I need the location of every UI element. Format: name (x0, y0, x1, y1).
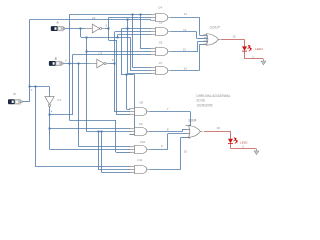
wire switch A output (65, 28, 85, 30)
svg-text:C7: C7 (159, 61, 163, 65)
junction net2 at riser (69, 63, 71, 65)
wire net3 C left vertical (29, 20, 31, 102)
switch A (51, 26, 65, 31)
junction net2 rail c (140, 14, 142, 16)
junction net3 at C drop (35, 86, 37, 88)
and gate C10 (129, 145, 149, 153)
wire net5 A-bar rail to C4 in2 (109, 17, 151, 19)
wire net6 drop (114, 63, 116, 112)
svg-text:C10: C10 (140, 140, 146, 144)
wire net2 B drop to C7 in1 (132, 15, 134, 68)
pin dot cout in3 (206, 41, 208, 43)
wire net12 to or in2 (196, 38, 205, 40)
wire net11 h (170, 17, 199, 19)
wire net4 to C6 in3 (73, 54, 151, 56)
wire net5 to C8 in3 (117, 114, 130, 116)
svg-text:C3: C3 (99, 52, 103, 56)
junction net3 at C5 feed (127, 28, 129, 30)
wire net2 B drop to C6 in1 (140, 15, 142, 49)
pin dot sum in3 (189, 133, 191, 135)
junction net2 rail b (132, 14, 134, 16)
led LED2 (228, 138, 237, 144)
wire net2 to C10 in1 (78, 146, 130, 148)
junction net1 b (86, 37, 88, 39)
wire net16 sum to led2 (204, 131, 231, 133)
wire switch B output (63, 63, 89, 65)
wire net12 h (170, 31, 196, 33)
svg-text:12: 12 (183, 28, 187, 32)
wire net3 to C5 in1 (122, 28, 152, 30)
wire net3 under C7 (122, 74, 135, 76)
wire C1 output (49, 107, 51, 149)
wire net3 C bottom to C11 in1 (36, 166, 131, 168)
wire net3 to C9 in3 (130, 134, 135, 136)
and gate C9 (129, 127, 149, 135)
wire net2 drop to C10 (78, 63, 80, 146)
pin dot cout in2 (206, 38, 208, 40)
wire net1 to C11 in2 (98, 169, 130, 171)
switch C (8, 99, 22, 104)
svg-text:C5: C5 (159, 20, 163, 24)
wire net3 to C8 in1 (127, 109, 131, 111)
or gate COUT (204, 34, 221, 46)
junction net4 b (49, 128, 51, 130)
svg-text:C9: C9 (139, 122, 143, 126)
wire net2 B horizontal low (69, 120, 116, 122)
wire net3 to C7 in3 (128, 73, 152, 75)
wire net3 drop to C8 (126, 75, 128, 109)
wire net7 h (149, 111, 190, 113)
wire net3 C branch to C1 (29, 86, 49, 88)
wire net14 v (199, 44, 201, 70)
wire net7 v to sum in1 (190, 112, 192, 126)
wire led2 to ground (231, 148, 257, 150)
wire net1 drop to C11 in3 (101, 132, 103, 173)
wire net2 B to C6 in1 (141, 48, 151, 50)
inverter C1 (45, 94, 54, 109)
ground 2 (254, 149, 259, 155)
wire net9 to sum in3 (168, 133, 187, 135)
wire net4 to C10 in2 (50, 149, 131, 151)
junction net1 c (86, 51, 88, 53)
wire net2 B down (69, 63, 71, 120)
wire net9 h (149, 149, 168, 151)
svg-text:LED1: LED1 (255, 47, 263, 51)
svg-text:B: B (55, 57, 57, 61)
wire net12 v (196, 32, 198, 39)
wire net9 v (167, 134, 169, 150)
wire net5 drop b (116, 40, 118, 114)
wire net1 A drop (80, 29, 82, 38)
svg-text:LED2: LED2 (240, 141, 248, 145)
wire net5 drop a (108, 29, 110, 41)
wire net4 right (50, 114, 74, 116)
wire net4 riser (72, 54, 74, 114)
svg-text:C1: C1 (57, 98, 61, 102)
wire net13 to or in3 (198, 41, 206, 43)
and gate C7 (150, 66, 170, 74)
pin dot sum in2 (189, 129, 191, 131)
wire net14 to or in4 (199, 44, 205, 46)
junction net1 to C11 a (98, 131, 100, 133)
wire net11 v (199, 17, 201, 35)
svg-text:11: 11 (184, 12, 187, 16)
wire net3 channel drop (127, 20, 129, 73)
inverter C3 (89, 59, 109, 68)
wire net14 h (170, 70, 199, 72)
junction net4 a (49, 114, 51, 116)
wire net1 A drop to C7 in2 (130, 37, 132, 70)
wire net5 A-bar riser (108, 17, 110, 28)
wire net10 to sum in4 (180, 137, 190, 139)
svg-text:A: A (56, 20, 59, 24)
junction net3 rail (127, 19, 129, 21)
wire net1 A to C5 in3 (118, 34, 151, 36)
wire net3 C drop left column (35, 87, 37, 167)
wire net1 A to C9 in2 (87, 131, 131, 133)
or gate SUM (186, 126, 203, 138)
junction net6 at C3 out (114, 63, 116, 65)
wire net1 A column (86, 37, 88, 132)
wire net3 C top rail to C4 in3 (29, 19, 151, 21)
svg-text:15: 15 (232, 34, 236, 38)
wire net1 A riser to C5 in3 (117, 34, 119, 37)
and gate C11 (129, 165, 149, 173)
svg-text:COUT: COUT (210, 25, 221, 29)
wire net5 jog (109, 40, 117, 42)
svg-text:16: 16 (217, 126, 221, 130)
and gate C5 (150, 27, 170, 35)
junction net1 to C11 b (101, 131, 103, 133)
pin dot cout in4 (206, 44, 208, 46)
svg-text:C11: C11 (137, 158, 142, 162)
wire C1 input (49, 87, 51, 95)
wire net6 to C5 in2 (115, 31, 151, 33)
wire led1 to ground (245, 58, 264, 60)
pin dot sum in1 (189, 125, 191, 127)
junction net2 second drop (78, 63, 80, 65)
pin dot sum in4 (189, 137, 191, 139)
wire net15 cout to led1 (221, 39, 245, 41)
junction net3 at left vertical (29, 86, 31, 88)
svg-text:13: 13 (183, 47, 187, 51)
wire net1 A to C7 in2 (130, 70, 151, 72)
wire net2 B drop column (115, 120, 117, 152)
wire net1 drop to C11 in2 (98, 132, 100, 170)
led LED1 (242, 46, 251, 52)
wire net4 to C9 in1 (50, 128, 131, 130)
inverter C2 (85, 24, 105, 33)
wire net8 h (149, 131, 182, 133)
wire net10 v (180, 138, 182, 170)
wire net1 to C11 in3 (102, 172, 131, 174)
wire net2 B top rail to C4 in1 (69, 14, 151, 16)
junction net5 at C2 out (108, 28, 110, 30)
wire led1 cathode down (244, 51, 246, 59)
switch B (49, 61, 63, 66)
wire net11 to or in1 (199, 35, 205, 37)
wire net2 B to C10 in3 (116, 152, 130, 154)
wire net3 column (121, 29, 123, 75)
wire led2 cathode down (230, 144, 232, 149)
wire net2 B to C7 in1 (133, 67, 151, 69)
wire C3 output (109, 63, 115, 65)
wire net1 A to C6 in2 (87, 51, 151, 53)
svg-text:C2: C2 (92, 16, 96, 20)
svg-text:14: 14 (184, 67, 188, 71)
svg-text:C8: C8 (139, 100, 143, 104)
wire net8 to sum in2 (182, 129, 187, 131)
svg-text:10: 10 (184, 150, 188, 154)
junction net3 under C7 (126, 74, 128, 76)
wire net15 down to led1 (244, 40, 246, 47)
junction net1 d (117, 37, 119, 39)
svg-text:SUM: SUM (188, 119, 196, 123)
and gate C8 (129, 107, 149, 115)
wire net2 B riser (69, 15, 71, 64)
wire net1 A horizontal (81, 37, 130, 39)
pin dot cout in1 (206, 35, 208, 37)
wire net3 drop to C9 (134, 75, 136, 135)
wire C2 output (105, 28, 109, 30)
wire net6 riser (114, 32, 116, 64)
svg-text:C6: C6 (159, 41, 163, 45)
and gate C6 (150, 47, 170, 55)
wire net10 h (149, 169, 180, 171)
ground 1 (261, 59, 266, 65)
junction net1 A (80, 28, 82, 30)
wire net16 down to led2 (230, 132, 232, 139)
wire net6 to C8 in2 (115, 111, 130, 113)
wire net13 v (197, 41, 199, 51)
and gate C4 (150, 13, 170, 21)
svg-text:C4: C4 (158, 5, 162, 9)
wire switch C output (22, 101, 29, 103)
wire net13 h (170, 51, 198, 53)
wire net8 v (182, 130, 184, 132)
